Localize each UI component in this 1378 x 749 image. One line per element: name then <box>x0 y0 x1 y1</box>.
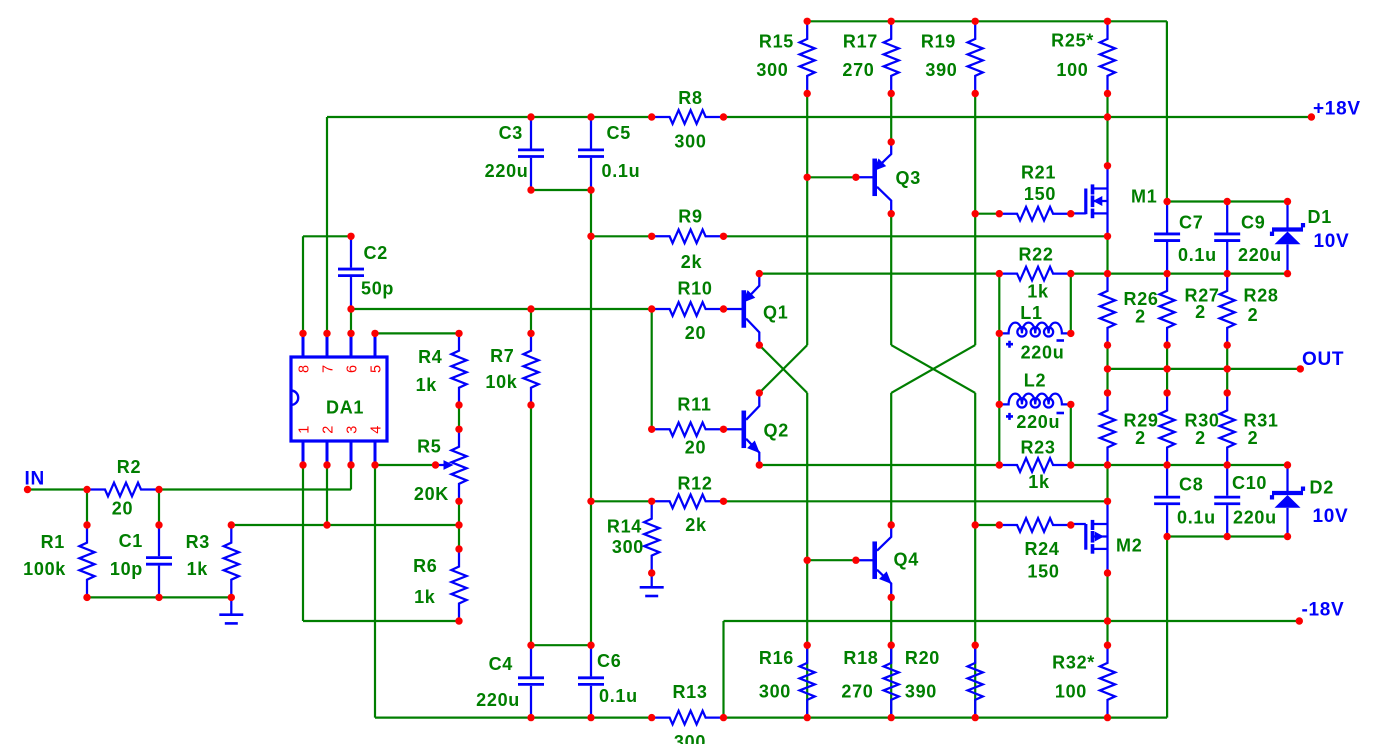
junction <box>432 461 439 468</box>
junction <box>972 714 979 721</box>
junction <box>24 486 31 493</box>
svg-text:2: 2 <box>1135 307 1146 327</box>
junction <box>1224 533 1231 540</box>
wire R25 to M1 drain <box>1106 94 1108 166</box>
svg-text:1k: 1k <box>1028 472 1050 492</box>
L1 plus <box>1006 341 1013 348</box>
junction <box>587 714 594 721</box>
svg-text:C8: C8 <box>1179 475 1203 495</box>
wire R12 row to M2 drain <box>724 500 1108 502</box>
transistor Q4 <box>856 559 875 561</box>
svg-text:C3: C3 <box>499 123 523 143</box>
junction <box>1224 365 1231 372</box>
svg-text:Q4: Q4 <box>894 550 919 570</box>
junction <box>1104 162 1111 169</box>
junction <box>1284 270 1291 277</box>
wire R7 to C4 feedback <box>530 405 532 645</box>
junction <box>527 305 534 312</box>
resistor R3 <box>224 525 239 597</box>
wire crossover X1 diagonal b <box>759 345 807 393</box>
svg-text:300: 300 <box>756 60 788 80</box>
junction <box>804 90 811 97</box>
wire C2 bottom / R10 row <box>351 308 652 310</box>
svg-text:R9: R9 <box>678 207 702 227</box>
junction <box>83 486 90 493</box>
junction <box>1284 533 1291 540</box>
resistor R7 <box>523 333 538 405</box>
zener diode D2 <box>1286 465 1288 493</box>
resistor R21 <box>999 207 1071 221</box>
resistor R22 <box>999 267 1071 281</box>
junction <box>756 389 763 396</box>
junction <box>1284 198 1291 205</box>
svg-text:R22: R22 <box>1018 245 1053 265</box>
svg-text:R19: R19 <box>921 32 956 52</box>
junction <box>1104 18 1111 25</box>
junction <box>996 210 1003 217</box>
junction <box>996 401 1003 408</box>
wire +18V rail left <box>327 116 652 118</box>
svg-text:M2: M2 <box>1116 536 1142 556</box>
svg-text:Q3: Q3 <box>896 168 921 188</box>
svg-text:R24: R24 <box>1024 539 1059 559</box>
svg-text:R6: R6 <box>413 556 437 576</box>
svg-text:R20: R20 <box>905 648 940 668</box>
resistor R16 <box>800 645 815 717</box>
wire R9 row to M1 source <box>724 235 1108 237</box>
potentiometer R5 <box>451 429 466 501</box>
svg-text:C2: C2 <box>364 243 388 263</box>
svg-text:R7: R7 <box>490 346 514 366</box>
L2 minus <box>1057 412 1065 415</box>
svg-text:R15: R15 <box>759 32 794 52</box>
junction <box>1104 569 1111 576</box>
capacitor C10 <box>1226 465 1228 496</box>
svg-text:R12: R12 <box>677 474 712 494</box>
junction <box>852 557 859 564</box>
junction <box>347 233 354 240</box>
resistor R8 <box>652 110 724 124</box>
svg-text:L2: L2 <box>1024 371 1046 391</box>
resistor R27 <box>1160 274 1175 346</box>
svg-text:100: 100 <box>1055 682 1087 702</box>
junction <box>527 714 534 721</box>
svg-text:5: 5 <box>369 364 385 373</box>
svg-text:-18V: -18V <box>1302 600 1345 621</box>
svg-text:R8: R8 <box>678 88 702 108</box>
junction <box>371 461 378 468</box>
resistor R12 <box>652 495 724 509</box>
junction <box>1104 365 1111 372</box>
wire pin3 drop <box>350 465 352 490</box>
svg-text:220u: 220u <box>485 161 529 181</box>
wire R5-R6 link <box>458 501 460 549</box>
junction <box>888 210 895 217</box>
svg-text:2: 2 <box>1195 428 1206 448</box>
junction <box>1297 365 1304 372</box>
capacitor C4 <box>530 645 532 676</box>
svg-text:0.1u: 0.1u <box>599 686 638 706</box>
junction <box>1163 270 1170 277</box>
junction <box>804 174 811 181</box>
svg-text:1k: 1k <box>414 587 436 607</box>
wire M2 source link <box>1106 573 1108 645</box>
junction <box>1067 401 1074 408</box>
svg-text:300: 300 <box>674 732 706 744</box>
wire M1 source to R26 <box>1106 236 1108 273</box>
wire C5 column upper <box>590 190 592 236</box>
junction <box>1224 198 1231 205</box>
junction <box>1104 642 1111 649</box>
mosfet M2 <box>1106 501 1108 573</box>
wire Q3 emitter link <box>890 94 892 143</box>
wire R1-C1-R3 bottom row <box>87 596 231 598</box>
capacitor C2 <box>350 236 352 267</box>
capacitor C8 <box>1166 465 1168 496</box>
svg-text:10p: 10p <box>110 559 143 579</box>
resistor R25 <box>1100 21 1115 93</box>
wire C2 top to pin8 <box>303 235 351 237</box>
junction <box>804 557 811 564</box>
wire IN lead <box>28 488 88 490</box>
svg-text:L1: L1 <box>1020 303 1042 323</box>
svg-text:D1: D1 <box>1308 207 1332 227</box>
junction <box>1067 270 1074 277</box>
wire Q4 base row <box>807 559 856 561</box>
wire L2-R23 right link <box>1070 404 1072 465</box>
svg-text:2: 2 <box>321 425 337 434</box>
wire R19 column <box>974 94 976 346</box>
svg-text:10k: 10k <box>485 372 517 392</box>
capacitor C1 <box>158 525 160 556</box>
junction <box>1224 270 1231 277</box>
resistor R26 <box>1100 274 1115 346</box>
svg-text:R3: R3 <box>186 532 210 552</box>
svg-text:R4: R4 <box>418 347 442 367</box>
junction <box>1067 210 1074 217</box>
svg-text:150: 150 <box>1027 562 1059 582</box>
svg-text:0.1u: 0.1u <box>602 161 641 181</box>
junction <box>756 341 763 348</box>
wire C2 bottom to pin6 <box>350 309 352 333</box>
inductor L2 <box>999 394 1071 405</box>
junction <box>1163 341 1170 348</box>
wire pin4 to R5 wiper <box>375 464 436 466</box>
junction <box>972 210 979 217</box>
junction <box>155 521 162 528</box>
wire R1 top stub <box>86 490 88 526</box>
svg-text:C9: C9 <box>1241 213 1265 233</box>
transistor Q1 <box>724 308 744 310</box>
junction <box>720 305 727 312</box>
junction <box>323 461 330 468</box>
wire C4-C6 top row <box>531 644 591 646</box>
op-amp DA1 <box>291 357 387 441</box>
svg-text:R16: R16 <box>759 648 794 668</box>
junction <box>804 642 811 649</box>
junction <box>1104 341 1111 348</box>
wire Q3 collector column <box>890 214 892 345</box>
junction <box>648 426 655 433</box>
resistor R17 <box>884 21 899 93</box>
svg-text:C4: C4 <box>489 654 513 674</box>
svg-text:C10: C10 <box>1232 473 1267 493</box>
wire crossover X2 diagonal b <box>891 345 975 393</box>
wire bottom bus left <box>375 716 652 718</box>
wire R6 bottom row <box>303 620 459 622</box>
svg-text:20: 20 <box>685 438 706 458</box>
wire pin8 column <box>302 236 304 333</box>
junction <box>228 521 235 528</box>
capacitor C6 <box>590 645 592 676</box>
junction <box>1224 461 1231 468</box>
svg-text:Q1: Q1 <box>763 303 788 323</box>
junction <box>804 714 811 721</box>
junction <box>720 233 727 240</box>
transistor Q2 <box>724 428 744 430</box>
svg-text:300: 300 <box>759 682 791 702</box>
svg-text:R1: R1 <box>41 532 65 552</box>
svg-text:50p: 50p <box>361 279 394 299</box>
svg-text:OUT: OUT <box>1302 349 1344 370</box>
junction <box>299 461 306 468</box>
svg-text:D2: D2 <box>1310 478 1334 498</box>
resistor R6 <box>451 549 466 621</box>
capacitor C5 <box>590 117 592 149</box>
resistor R23 <box>999 458 1071 472</box>
svg-text:1k: 1k <box>1027 282 1049 302</box>
resistor R32 <box>1100 645 1115 717</box>
junction <box>972 90 979 97</box>
junction <box>83 594 90 601</box>
wire R26-R29 mid link <box>1106 345 1108 393</box>
junction <box>455 401 462 408</box>
svg-text:R18: R18 <box>843 648 878 668</box>
svg-text:2: 2 <box>1135 428 1146 448</box>
junction <box>972 521 979 528</box>
wire C7-C9-D1 top row <box>1167 200 1288 202</box>
wire Q3 base row <box>807 176 856 178</box>
resistor R18 <box>884 645 899 717</box>
svg-text:270: 270 <box>841 682 873 702</box>
junction <box>527 113 534 120</box>
wire OUT row <box>1108 368 1301 370</box>
junction <box>996 521 1003 528</box>
svg-text:1k: 1k <box>187 559 209 579</box>
junction <box>888 594 895 601</box>
mosfet M1 <box>1106 166 1108 237</box>
svg-text:R23: R23 <box>1020 438 1055 458</box>
resistor R9 <box>652 230 724 244</box>
junction <box>83 521 90 528</box>
wire R10-R11 left link <box>651 309 653 429</box>
wire R23 row right <box>1071 464 1288 466</box>
svg-text:6: 6 <box>345 364 361 373</box>
wire Q2 emitter row <box>759 464 999 466</box>
junction <box>972 642 979 649</box>
svg-text:R25*: R25* <box>1051 31 1094 51</box>
resistor R4 <box>451 333 466 405</box>
junction <box>1308 113 1315 120</box>
svg-text:R14: R14 <box>607 517 642 537</box>
wire top bus drop <box>1166 21 1168 201</box>
junction <box>648 714 655 721</box>
resistor R15 <box>800 21 815 93</box>
wire +18V rail corner drop <box>326 117 328 333</box>
resistor R14 <box>644 501 659 573</box>
svg-text:C1: C1 <box>119 531 143 551</box>
junction <box>1296 617 1303 624</box>
svg-text:R5: R5 <box>417 437 441 457</box>
junction <box>888 90 895 97</box>
svg-text:390: 390 <box>925 60 957 80</box>
svg-text:300: 300 <box>612 537 644 557</box>
wire R22-L1 right link <box>1070 274 1072 334</box>
junction <box>1224 341 1231 348</box>
junction <box>648 498 655 505</box>
resistor R10 <box>652 302 724 316</box>
svg-text:Q2: Q2 <box>764 421 789 441</box>
wire R4-R5 link <box>458 405 460 429</box>
resistor R24 <box>999 518 1071 532</box>
junction <box>455 617 462 624</box>
svg-text:R11: R11 <box>677 395 711 415</box>
svg-text:R17: R17 <box>843 32 878 52</box>
svg-text:+18V: +18V <box>1313 99 1361 120</box>
junction <box>1104 90 1111 97</box>
junction <box>299 330 306 337</box>
svg-text:2k: 2k <box>681 252 703 272</box>
svg-text:C6: C6 <box>597 651 621 671</box>
junction <box>1163 389 1170 396</box>
wire Q4 emitter link <box>890 597 892 717</box>
wire R20 column <box>974 393 976 718</box>
junction <box>527 186 534 193</box>
ground <box>230 597 232 614</box>
wire Q1 emitter row <box>759 273 999 275</box>
junction <box>347 330 354 337</box>
wire pin5 to R4 <box>375 332 459 334</box>
junction <box>455 545 462 552</box>
wire IN row <box>159 488 351 490</box>
junction <box>888 642 895 649</box>
junction <box>720 498 727 505</box>
junction <box>587 642 594 649</box>
resistor R2 <box>87 483 159 497</box>
svg-text:270: 270 <box>842 60 874 80</box>
wire pin2 column <box>326 465 328 525</box>
junction <box>1163 198 1170 205</box>
junction <box>1104 113 1111 120</box>
svg-text:C7: C7 <box>1179 213 1203 233</box>
wire R29 to M2 drain <box>1106 465 1108 501</box>
junction <box>1224 389 1231 396</box>
junction <box>455 498 462 505</box>
wire L1-L2 left column <box>998 274 1000 465</box>
svg-text:R2: R2 <box>117 457 141 477</box>
resistor R28 <box>1220 274 1235 346</box>
svg-text:300: 300 <box>674 132 706 152</box>
svg-text:R32*: R32* <box>1052 653 1095 673</box>
junction <box>527 330 534 337</box>
junction <box>1067 330 1074 337</box>
junction <box>648 305 655 312</box>
junction <box>720 426 727 433</box>
junction <box>587 113 594 120</box>
junction <box>228 594 235 601</box>
svg-text:20K: 20K <box>414 484 449 504</box>
capacitor C7 <box>1166 202 1168 233</box>
L2 plus <box>1006 413 1013 420</box>
junction <box>1284 461 1291 468</box>
svg-text:0.1u: 0.1u <box>1177 508 1216 528</box>
junction <box>1104 498 1111 505</box>
svg-text:2k: 2k <box>685 515 707 535</box>
junction <box>996 270 1003 277</box>
wire +18V rail right <box>724 116 1312 118</box>
wire C8 bottom drop <box>1166 537 1168 718</box>
junction <box>527 401 534 408</box>
capacitor C9 <box>1226 202 1228 233</box>
wire top supply bus <box>807 20 1167 22</box>
junction <box>155 486 162 493</box>
svg-text:20: 20 <box>112 499 133 519</box>
wire crossover X1 diagonal a <box>759 345 807 393</box>
wire R12 row left <box>591 500 652 502</box>
junction <box>888 18 895 25</box>
svg-text:2: 2 <box>1195 302 1206 322</box>
svg-text:R28: R28 <box>1244 286 1279 306</box>
svg-text:4: 4 <box>369 425 385 434</box>
svg-text:220u: 220u <box>476 690 520 710</box>
junction <box>455 426 462 433</box>
junction <box>527 642 534 649</box>
junction <box>1067 461 1074 468</box>
zener diode D1 <box>1286 202 1288 230</box>
junction <box>587 498 594 505</box>
svg-text:M1: M1 <box>1131 187 1157 207</box>
wire C5 column <box>590 236 592 501</box>
junction <box>804 18 811 25</box>
junction <box>1104 389 1111 396</box>
capacitor C3 <box>530 117 532 149</box>
svg-text:DA1: DA1 <box>326 398 364 418</box>
junction <box>648 113 655 120</box>
svg-text:100k: 100k <box>23 559 66 579</box>
wire R24 feed <box>975 524 999 526</box>
wire pin4 column to bottom bus <box>374 465 376 718</box>
resistor R20 <box>968 645 983 717</box>
junction <box>648 569 655 576</box>
wire -18V rail <box>724 620 1300 622</box>
svg-text:2: 2 <box>1248 428 1259 448</box>
inductor L1 <box>999 323 1071 334</box>
wire C8-C10-D2 bottom row <box>1167 535 1287 537</box>
junction <box>323 521 330 528</box>
wire R10row-R7 link <box>530 309 532 333</box>
junction <box>756 461 763 468</box>
svg-text:10V: 10V <box>1314 231 1350 252</box>
junction <box>996 330 1003 337</box>
junction <box>587 186 594 193</box>
wire Q4 collector column <box>890 393 892 525</box>
svg-text:3: 3 <box>345 425 361 434</box>
junction <box>888 138 895 145</box>
svg-text:10V: 10V <box>1313 506 1349 527</box>
junction <box>1067 521 1074 528</box>
junction <box>972 18 979 25</box>
wire R3 top row <box>231 524 459 526</box>
